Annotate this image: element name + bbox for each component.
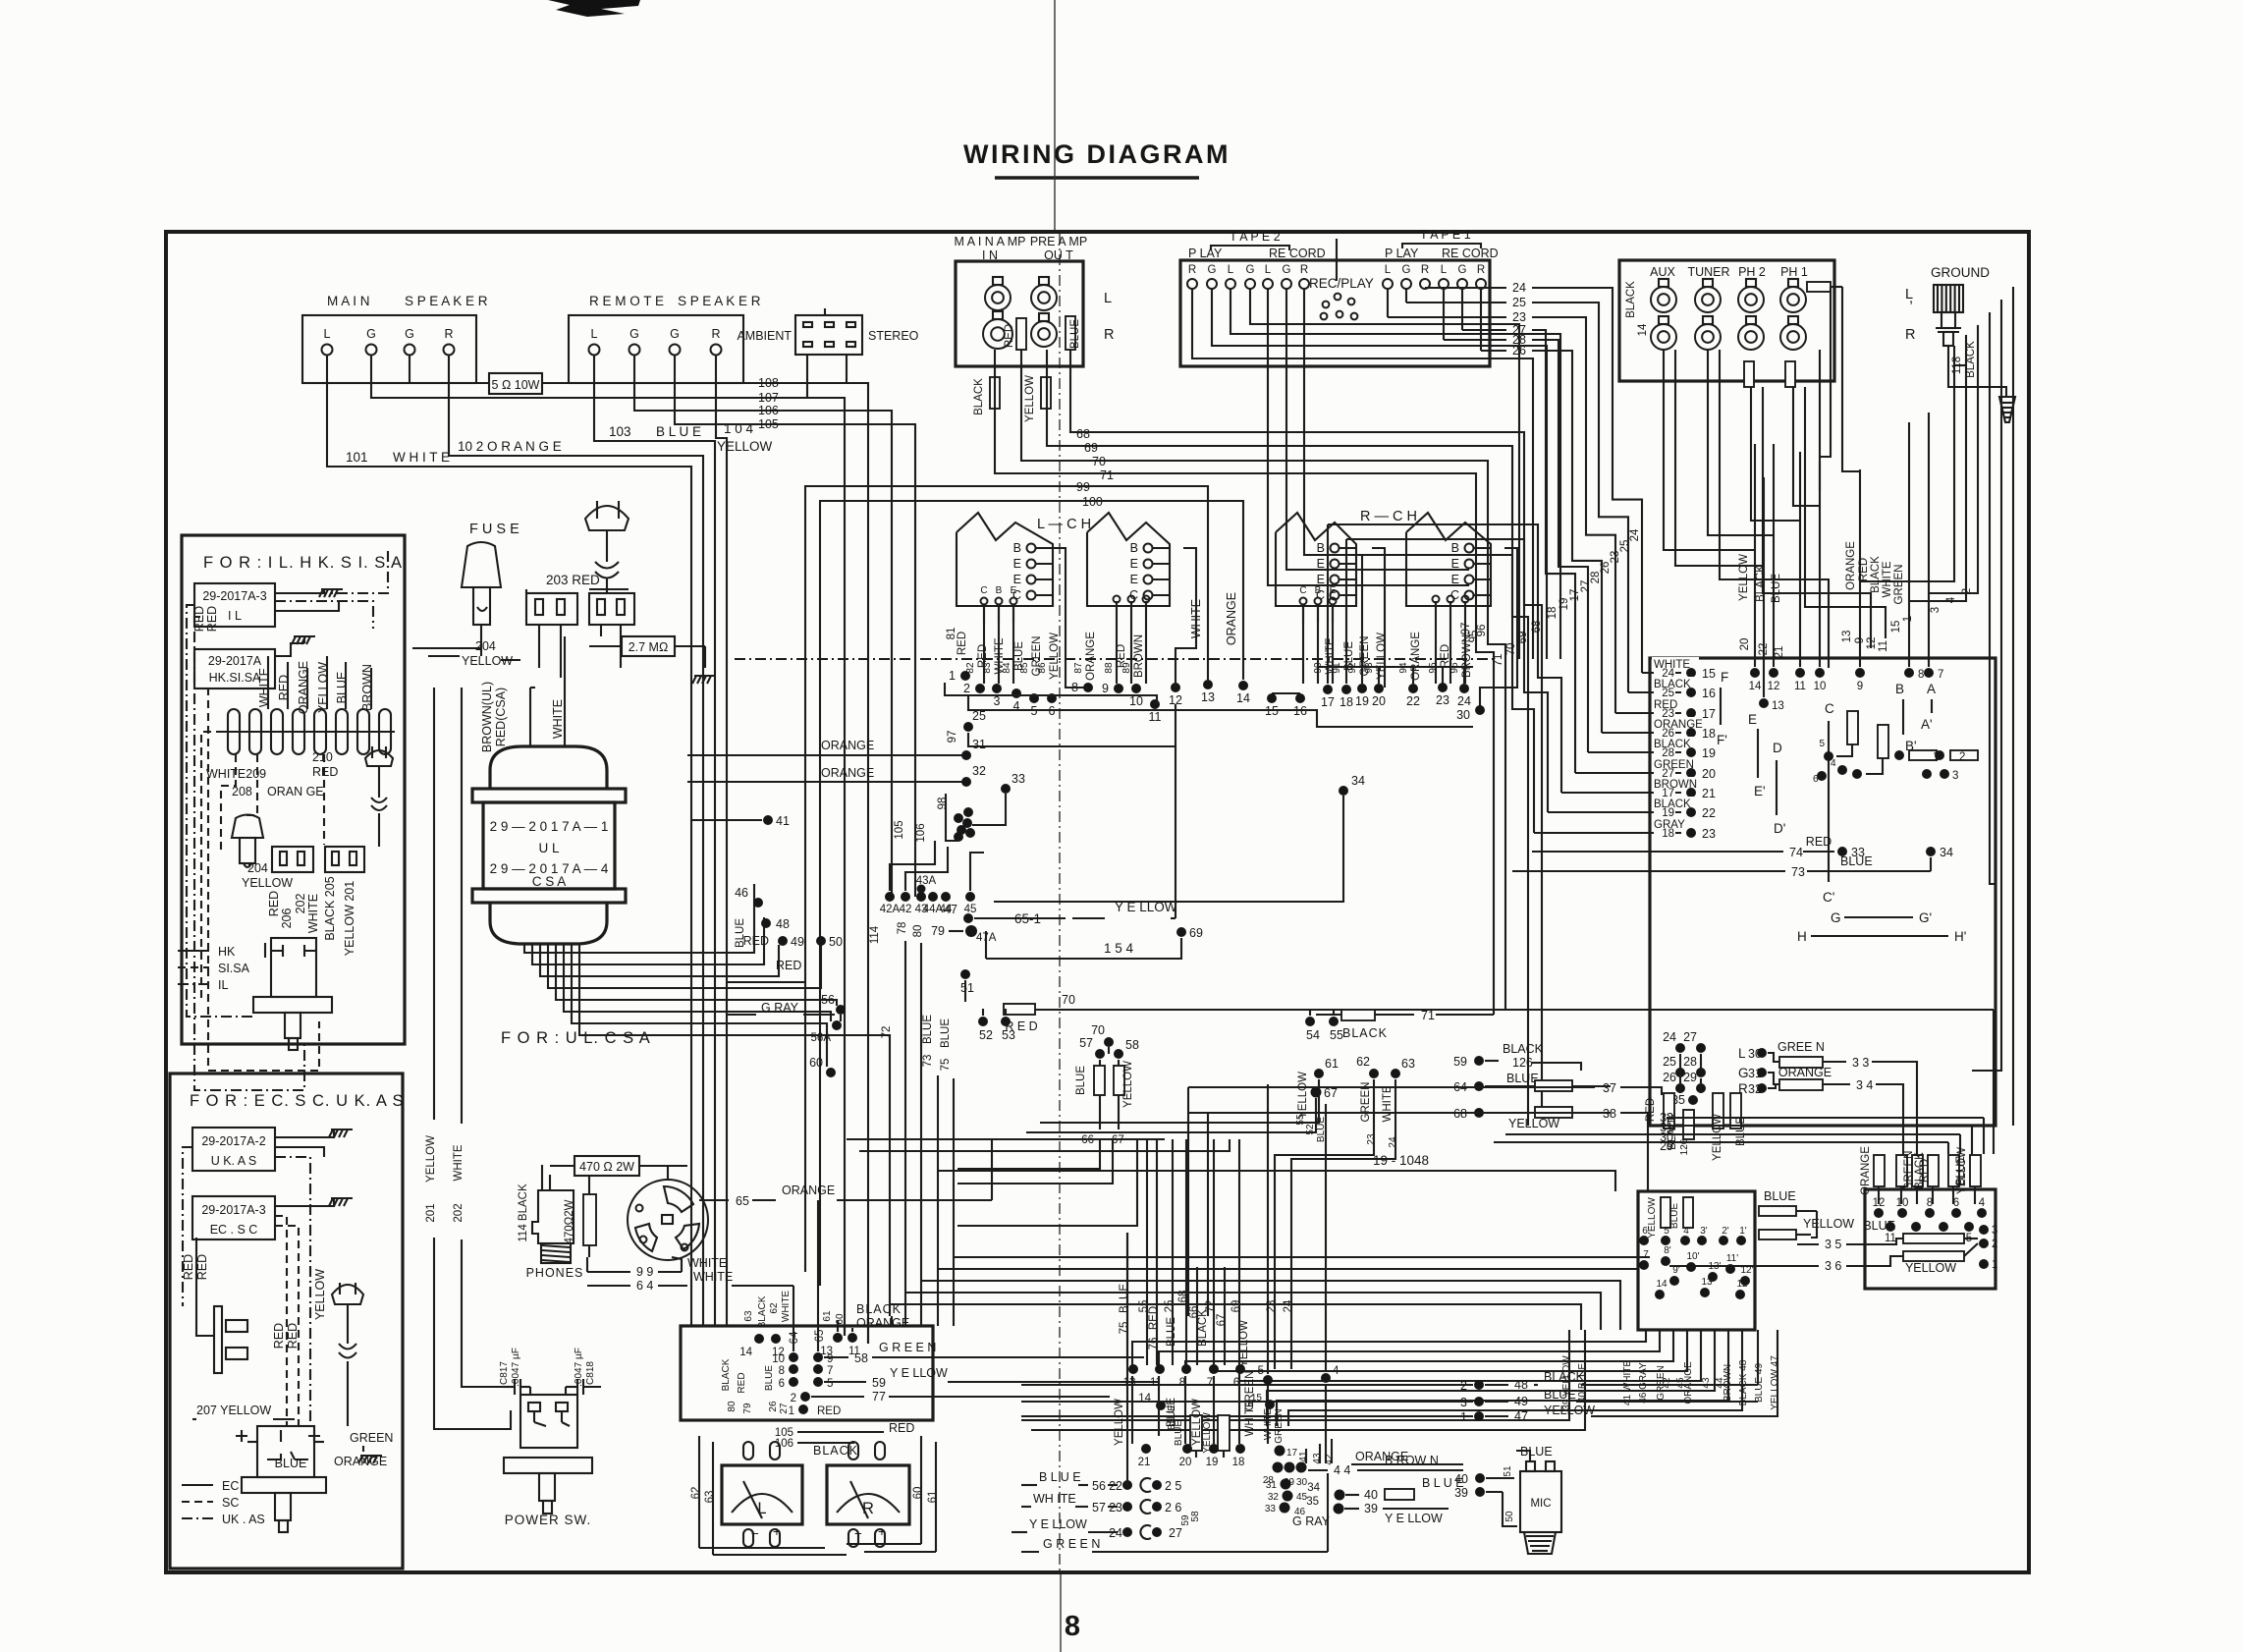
fuse F1 xyxy=(412,522,519,656)
label 72 vertical xyxy=(881,1026,893,1316)
svg-text:R: R xyxy=(1905,327,1915,343)
svg-text:31: 31 xyxy=(972,738,986,751)
svg-text:ORAN GE: ORAN GE xyxy=(267,785,324,798)
svg-text:RED: RED xyxy=(957,632,968,655)
svg-text:105: 105 xyxy=(758,417,779,431)
label 204 YELLOW xyxy=(242,861,293,890)
svg-text:RED: RED xyxy=(205,606,219,632)
svg-text:IL: IL xyxy=(218,978,228,992)
svg-text:4: 4 xyxy=(1979,1197,1986,1209)
svg-text:201: 201 xyxy=(425,1203,437,1222)
junction cluster 28 29 30 xyxy=(1263,1439,1335,1517)
bead BLACK xyxy=(973,377,1000,415)
svg-text:BLACK 48: BLACK 48 xyxy=(1738,1359,1749,1405)
svg-text:G: G xyxy=(1831,910,1841,925)
wire 69 xyxy=(1047,350,1528,1126)
svg-text:20: 20 xyxy=(1372,694,1386,708)
bottom terminals row B xyxy=(1138,1408,1298,1468)
labels RED RED center box2 xyxy=(272,1323,300,1349)
svg-text:19: 19 xyxy=(1206,1457,1219,1468)
amp module M2 xyxy=(1087,513,1170,606)
link B-B' xyxy=(1895,682,1917,753)
svg-text:YELLOW: YELLOW xyxy=(313,1269,327,1320)
svg-text:42: 42 xyxy=(900,904,912,915)
svg-text:15: 15 xyxy=(1890,621,1902,633)
svg-text:33: 33 xyxy=(1265,1504,1277,1514)
tape wires 24 25 23 27 28 26 xyxy=(1388,281,1642,773)
terminal pairs 22-27 xyxy=(1109,1478,1201,1540)
svg-text:50: 50 xyxy=(829,935,843,949)
svg-text:96: 96 xyxy=(1476,625,1488,637)
svg-text:ORANGE: ORANGE xyxy=(1683,1361,1694,1404)
svg-text:69: 69 xyxy=(1517,632,1529,644)
svg-text:70: 70 xyxy=(1062,993,1075,1007)
labels GREEN ORANGE box2 xyxy=(334,1431,393,1468)
svg-text:77: 77 xyxy=(872,1390,886,1404)
svg-text:22: 22 xyxy=(1758,643,1770,656)
wire 97 junction 25 xyxy=(947,704,1176,746)
meter side labels 62 63 60 61 xyxy=(690,1436,939,1555)
svg-text:98: 98 xyxy=(937,798,949,810)
svg-text:P LAY: P LAY xyxy=(1385,247,1419,260)
svg-text:71: 71 xyxy=(1100,468,1114,482)
svg-text:YELLOW: YELLOW xyxy=(1376,633,1388,680)
svg-text:BROWN: BROWN xyxy=(1133,634,1145,678)
svg-text:114 BLACK: 114 BLACK xyxy=(518,1184,529,1242)
svg-text:107: 107 xyxy=(758,391,779,405)
svg-text:20: 20 xyxy=(1739,638,1751,651)
svg-text:EC: EC xyxy=(222,1479,239,1493)
svg-text:RED: RED xyxy=(889,1421,914,1435)
svg-text:21: 21 xyxy=(1774,646,1785,659)
svg-text:12: 12 xyxy=(1768,681,1780,692)
svg-text:3: 3 xyxy=(1952,770,1958,782)
svg-text:79: 79 xyxy=(742,1403,753,1414)
bead BLUE xyxy=(1066,316,1081,350)
svg-text:RED: RED xyxy=(267,891,281,916)
option box FOR:IL.HK.SI.SA xyxy=(182,535,405,1044)
svg-text:14: 14 xyxy=(1637,323,1649,336)
connector 29-2017A-3 IL xyxy=(194,583,339,627)
svg-text:24: 24 xyxy=(1663,1030,1676,1044)
svg-text:23: 23 xyxy=(1366,1133,1377,1145)
labels 97 95 96 right of row xyxy=(1460,623,1488,643)
left connector terminals xyxy=(1639,1226,1754,1299)
svg-text:BLUE: BLUE xyxy=(764,1365,775,1391)
svg-text:I L: I L xyxy=(228,609,242,623)
svg-text:MIC: MIC xyxy=(1530,1498,1551,1510)
svg-text:207 YELLOW: 207 YELLOW xyxy=(196,1404,271,1417)
svg-text:18: 18 xyxy=(1702,727,1716,741)
svg-text:RE CORD: RE CORD xyxy=(1269,247,1326,260)
svg-text:BLACK: BLACK xyxy=(721,1358,732,1391)
svg-text:G: G xyxy=(1246,264,1255,276)
junction 41 xyxy=(691,814,790,828)
svg-text:61: 61 xyxy=(1325,1057,1339,1071)
capacitor C817 .0047uF xyxy=(499,1348,530,1395)
svg-text:24: 24 xyxy=(1512,281,1526,295)
junction 47 47A xyxy=(931,903,997,944)
svg-text:62: 62 xyxy=(1356,1055,1370,1069)
svg-text:RED: RED xyxy=(1004,324,1015,348)
microphone jack MIC xyxy=(1454,1445,1561,1554)
svg-text:C: C xyxy=(1299,585,1306,596)
row 42A-45 xyxy=(880,841,984,915)
svg-text:15: 15 xyxy=(1702,667,1716,681)
label BLUE vertical left xyxy=(735,918,746,948)
module leads to row xyxy=(984,548,1517,710)
center long horizontals lower xyxy=(890,1257,1650,1330)
svg-text:B: B xyxy=(1895,682,1904,696)
svg-text:55: 55 xyxy=(1330,1028,1343,1042)
svg-text:WHITE: WHITE xyxy=(1263,1408,1274,1441)
svg-text:4: 4 xyxy=(1945,596,1957,603)
svg-text:S P E A K E R: S P E A K E R xyxy=(678,294,761,308)
svg-text:5 Ω 10W: 5 Ω 10W xyxy=(492,378,540,392)
row bus lines xyxy=(945,667,1473,727)
vertical wire labels colors xyxy=(1738,541,1973,659)
svg-text:B L U E: B L U E xyxy=(1039,1470,1081,1484)
bottom terminals row A xyxy=(1123,1084,1340,1463)
ground symbol UK.AS xyxy=(329,1129,353,1137)
connector 29-2017A-2 UK.AS xyxy=(192,1128,334,1171)
svg-text:31: 31 xyxy=(1266,1480,1278,1491)
link G-G' xyxy=(1831,910,1932,925)
svg-text:RED: RED xyxy=(743,934,769,948)
svg-text:G RAY: G RAY xyxy=(761,1001,799,1015)
jack pre amp L xyxy=(1031,277,1057,310)
labels 114 78 80 verticals xyxy=(869,922,924,1316)
wire 99 WHITE phones xyxy=(587,1256,727,1279)
svg-text:D': D' xyxy=(1774,821,1785,836)
transformer secondary fan xyxy=(524,897,890,1080)
junction 48 xyxy=(761,917,790,931)
beads above right connector xyxy=(1860,1146,1981,1204)
svg-text:3 4: 3 4 xyxy=(1856,1078,1873,1092)
svg-text:13: 13 xyxy=(1841,631,1853,643)
svg-text:B: B xyxy=(1013,541,1021,555)
svg-text:31: 31 xyxy=(1748,1067,1762,1080)
svg-text:52: 52 xyxy=(979,1028,993,1042)
svg-text:R: R xyxy=(1104,327,1114,343)
svg-text:18: 18 xyxy=(1662,828,1674,840)
svg-text:88: 88 xyxy=(1104,662,1115,674)
wire 37 xyxy=(1188,1081,1662,1095)
option box FOR:EC.SC.UK.AS xyxy=(170,1074,405,1569)
wires 17 19 18 to strip rows 21-23 xyxy=(1328,524,1561,833)
svg-text:BLUE: BLUE xyxy=(1863,1219,1895,1233)
svg-text:61: 61 xyxy=(927,1491,939,1504)
svg-text:YELLOW: YELLOW xyxy=(1297,1072,1309,1119)
svg-text:−: − xyxy=(854,1526,862,1541)
svg-text:R E D: R E D xyxy=(1005,1019,1037,1033)
svg-text:7: 7 xyxy=(1207,1377,1213,1389)
svg-text:UK . AS: UK . AS xyxy=(222,1513,265,1526)
svg-text:29-2017A-3: 29-2017A-3 xyxy=(201,1203,265,1217)
wire 154 xyxy=(986,931,1181,959)
svg-text:48: 48 xyxy=(1514,1378,1528,1392)
svg-text:E: E xyxy=(1130,573,1138,586)
svg-text:L: L xyxy=(757,1500,766,1517)
connector 29-2017A HK.SI.SA xyxy=(194,649,275,688)
svg-text:18: 18 xyxy=(1232,1457,1245,1468)
wire 70 top xyxy=(1021,350,1505,1010)
ambient leads xyxy=(807,355,847,398)
svg-text:24: 24 xyxy=(1457,694,1471,708)
svg-text:3 6: 3 6 xyxy=(1825,1259,1841,1273)
phones jack xyxy=(526,1175,584,1280)
svg-text:9': 9' xyxy=(1672,1265,1680,1276)
svg-text:22: 22 xyxy=(1109,1479,1122,1493)
svg-text:49: 49 xyxy=(791,935,804,949)
svg-text:51: 51 xyxy=(960,981,974,995)
svg-text:BLUE: BLUE xyxy=(1119,1284,1130,1313)
svg-text:P LAY: P LAY xyxy=(1188,247,1223,260)
svg-text:28: 28 xyxy=(1683,1055,1697,1069)
svg-text:7: 7 xyxy=(1643,1249,1649,1260)
jack pre amp R xyxy=(1031,313,1057,347)
svg-text:GREE N: GREE N xyxy=(1777,1040,1825,1054)
wire 74 RED to 33 xyxy=(1532,835,1865,859)
svg-text:ORANGE: ORANGE xyxy=(782,1184,835,1197)
svg-text:C: C xyxy=(1825,701,1834,716)
labels RED RED vertical box2 xyxy=(182,1254,209,1280)
svg-text:G: G xyxy=(1283,264,1291,276)
AC power plug UL xyxy=(585,501,629,593)
svg-text:RED: RED xyxy=(1806,835,1832,849)
svg-text:1: 1 xyxy=(949,669,956,683)
connector block B xyxy=(325,847,364,872)
label 210 RED xyxy=(312,750,338,779)
svg-text:ORANGE: ORANGE xyxy=(1355,1450,1408,1463)
label 204 YELLOW UL xyxy=(428,639,520,668)
svg-text:8: 8 xyxy=(779,1365,785,1377)
svg-text:39: 39 xyxy=(1364,1502,1378,1515)
svg-text:23: 23 xyxy=(1266,1300,1278,1313)
meter block box xyxy=(681,1326,933,1420)
svg-text:1': 1' xyxy=(1739,1226,1747,1237)
ground symbol 2.7M xyxy=(692,676,716,684)
svg-text:B L U E: B L U E xyxy=(656,424,701,439)
terminal row color labels xyxy=(946,628,1473,681)
svg-text:20: 20 xyxy=(1179,1457,1192,1468)
svg-text:H': H' xyxy=(1954,929,1966,944)
wire ORANGE to 32 xyxy=(687,764,986,787)
junction 33c xyxy=(972,772,1025,825)
svg-text:,: , xyxy=(1909,291,1913,306)
svg-text:60: 60 xyxy=(809,1056,823,1070)
svg-text:PHONES: PHONES xyxy=(526,1266,584,1280)
page fold line xyxy=(1055,0,1061,1652)
connector block A xyxy=(272,847,313,872)
title WIRING DIAGRAM xyxy=(963,139,1230,178)
svg-text:3 5: 3 5 xyxy=(1825,1238,1841,1251)
wire 202 WHITE vertical xyxy=(453,688,503,1387)
jacks aux tuner ph row1 xyxy=(1651,279,1676,312)
svg-text:Y E LLOW: Y E LLOW xyxy=(1385,1512,1443,1525)
svg-text:2: 2 xyxy=(791,1393,796,1404)
wire 102 ORANGE xyxy=(449,356,703,1277)
svg-text:29-2017A: 29-2017A xyxy=(208,654,262,668)
svg-text:BLACK: BLACK xyxy=(1870,556,1882,593)
terminal row 1-24 xyxy=(949,669,1471,724)
svg-text:RED: RED xyxy=(1858,558,1870,581)
svg-text:26: 26 xyxy=(1663,1071,1676,1084)
wire labels RED RED vertical xyxy=(192,606,219,632)
svg-text:21: 21 xyxy=(1702,787,1716,800)
svg-text:79: 79 xyxy=(931,924,945,938)
svg-text:3: 3 xyxy=(994,694,1001,708)
svg-text:54: 54 xyxy=(1306,1028,1320,1042)
jumper resistors inside box xyxy=(1813,711,1978,785)
svg-text:62: 62 xyxy=(769,1302,780,1314)
svg-text:8: 8 xyxy=(1927,1197,1933,1209)
svg-text:24: 24 xyxy=(1388,1136,1398,1148)
svg-text:SI.SA: SI.SA xyxy=(218,962,250,975)
svg-text:L: L xyxy=(1228,264,1234,276)
svg-text:B: B xyxy=(996,585,1003,596)
wire 38 xyxy=(1188,1107,1648,1191)
svg-text:BLUE: BLUE xyxy=(1771,574,1782,603)
svg-text:A: A xyxy=(1927,682,1936,696)
speaker phone selector rotary xyxy=(628,1166,708,1260)
power switch IL box xyxy=(253,938,332,1050)
svg-text:L: L xyxy=(1441,264,1448,276)
svg-text:WHITE: WHITE xyxy=(781,1291,792,1323)
svg-text:2.7 MΩ: 2.7 MΩ xyxy=(629,640,669,654)
svg-text:9: 9 xyxy=(1102,682,1109,695)
label WHITE 209 xyxy=(206,767,266,781)
svg-text:60: 60 xyxy=(835,1313,846,1325)
svg-text:6: 6 xyxy=(1953,1197,1959,1209)
svg-text:24: 24 xyxy=(1283,1299,1294,1312)
svg-text:29-2017A-2: 29-2017A-2 xyxy=(201,1134,265,1148)
svg-text:ORANGE: ORANGE xyxy=(856,1316,909,1330)
connector 29-2017A-3 EC.SC xyxy=(192,1196,334,1239)
svg-text:R: R xyxy=(1188,264,1196,276)
svg-text:17: 17 xyxy=(1321,695,1335,709)
svg-text:ORANGE: ORANGE xyxy=(1845,541,1857,590)
svg-text:+: + xyxy=(878,1524,886,1539)
svg-text:103: 103 xyxy=(609,424,631,439)
labels WHITE ORANGE above 13 14 xyxy=(1189,592,1238,645)
svg-text:WHITE: WHITE xyxy=(693,1270,733,1284)
svg-text:63: 63 xyxy=(1401,1057,1415,1071)
svg-text:72: 72 xyxy=(1205,1300,1217,1313)
svg-text:E: E xyxy=(1317,557,1325,571)
ground symbol EC.SC xyxy=(329,1198,353,1206)
svg-text:84: 84 xyxy=(1002,662,1012,674)
amp module M4 xyxy=(1406,513,1491,606)
svg-text:YELLOW: YELLOW xyxy=(717,439,773,454)
chassis screw xyxy=(1999,397,2015,422)
svg-text:BLACK: BLACK xyxy=(757,1295,768,1328)
svg-text:C': C' xyxy=(1823,890,1834,905)
svg-text:GREEN: GREEN xyxy=(1274,1408,1285,1444)
svg-text:58: 58 xyxy=(854,1351,868,1365)
svg-text:4: 4 xyxy=(1333,1365,1340,1377)
svg-text:E: E xyxy=(1748,712,1757,727)
svg-text:210: 210 xyxy=(312,750,333,764)
svg-text:70: 70 xyxy=(1092,455,1106,468)
svg-text:GREEN: GREEN xyxy=(1244,1371,1256,1411)
junction 56 56A GRAY xyxy=(727,993,846,1044)
aux tuner ph2 ph1 jack panel xyxy=(1619,260,1834,381)
ground binding post xyxy=(1905,265,2006,397)
svg-text:57: 57 xyxy=(1079,1036,1093,1050)
svg-text:10: 10 xyxy=(1129,694,1143,708)
svg-text:8': 8' xyxy=(1664,1245,1671,1256)
label 208 ORANGE xyxy=(232,785,324,798)
svg-text:RED: RED xyxy=(776,959,801,972)
svg-text:G R E E N: G R E E N xyxy=(1043,1537,1100,1551)
svg-text:YELLOW: YELLOW xyxy=(1905,1261,1956,1275)
svg-text:G: G xyxy=(366,327,376,341)
svg-text:ORANGE: ORANGE xyxy=(1410,632,1422,681)
connector L G R 30 31 32 xyxy=(1738,1040,1917,1189)
svg-text:48: 48 xyxy=(776,917,790,931)
svg-text:14: 14 xyxy=(739,1347,752,1358)
jack main amp R xyxy=(983,311,1012,349)
meter block side labels xyxy=(721,1358,790,1413)
main amp in pre amp out jack panel xyxy=(955,235,1115,366)
svg-text:G: G xyxy=(629,327,639,341)
svg-text:C S A: C S A xyxy=(532,874,567,889)
svg-text:42: 42 xyxy=(1662,1377,1672,1389)
svg-text:BLUE: BLUE xyxy=(275,1457,307,1470)
svg-text:BLUE: BLUE xyxy=(1544,1388,1576,1402)
svg-text:9: 9 xyxy=(1854,637,1866,643)
wire ORANGE to 31 xyxy=(687,738,986,760)
svg-text:S P E A K E R: S P E A K E R xyxy=(405,294,488,308)
svg-text:87: 87 xyxy=(1073,662,1084,674)
svg-text:23: 23 xyxy=(1436,693,1449,707)
svg-text:206: 206 xyxy=(280,909,294,929)
beads below PH panel xyxy=(1744,361,1795,387)
svg-text:16: 16 xyxy=(1702,687,1716,700)
outer frame xyxy=(166,232,2029,1572)
svg-text:OU T: OU T xyxy=(1044,248,1073,262)
svg-text:E: E xyxy=(1130,557,1138,571)
svg-text:WHITE: WHITE xyxy=(1882,561,1893,597)
ground symbol HK xyxy=(275,636,315,656)
meter block top labels xyxy=(743,1291,909,1332)
svg-text:TUNER: TUNER xyxy=(1687,265,1729,279)
svg-text:5: 5 xyxy=(1258,1365,1264,1377)
svg-text:25: 25 xyxy=(972,709,986,723)
svg-text:34: 34 xyxy=(1307,1482,1320,1494)
svg-text:55: 55 xyxy=(1295,1114,1306,1126)
wire 73 BLUE to 34 xyxy=(1512,846,1953,879)
svg-text:14: 14 xyxy=(1749,681,1762,692)
svg-text:BLACK: BLACK xyxy=(1342,1026,1388,1040)
svg-text:EC . S C: EC . S C xyxy=(210,1223,258,1237)
connector plates box2 xyxy=(196,1277,247,1373)
svg-text:BLACK: BLACK xyxy=(1625,281,1637,318)
svg-text:R: R xyxy=(862,1500,874,1517)
svg-text:47: 47 xyxy=(1514,1409,1528,1423)
svg-text:F O R : I L. H K. S I. S A: F O R : I L. H K. S I. S A xyxy=(203,554,403,572)
junction 52 53 bead RED wire 70 xyxy=(978,993,1994,1154)
svg-text:67: 67 xyxy=(1216,1314,1228,1327)
svg-text:24: 24 xyxy=(1109,1526,1122,1540)
svg-text:50: 50 xyxy=(1504,1511,1515,1522)
svg-text:3': 3' xyxy=(1700,1226,1708,1237)
junction 68b YELLOW bead xyxy=(1453,1107,1611,1130)
svg-text:2': 2' xyxy=(1722,1226,1729,1237)
svg-text:47: 47 xyxy=(944,903,957,916)
svg-text:51: 51 xyxy=(1503,1465,1513,1477)
